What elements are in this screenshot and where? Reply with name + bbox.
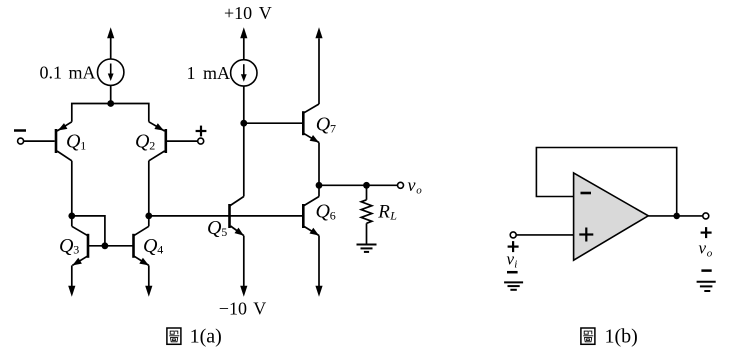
wire Q7 collector to +supply	[318, 38, 320, 104]
transistor Q5 (NPN)	[230, 197, 244, 236]
wire output rail	[319, 184, 398, 186]
terminal noninverting input	[198, 138, 204, 144]
ground at output	[697, 282, 716, 291]
wire op-amp output	[648, 215, 703, 217]
current source I1 circle	[98, 59, 124, 85]
terminal output (b)	[703, 213, 709, 219]
node I2/Q7 base junction	[240, 120, 247, 127]
svg-text:Q: Q	[135, 131, 150, 153]
svg-text:R: R	[377, 201, 390, 222]
wire Q4 collector to Q5/Q6 bases	[149, 215, 303, 217]
transistor Q7 (NPN)	[303, 104, 319, 143]
wire Q4 collector	[148, 216, 150, 226]
minus sign vo polarity	[701, 269, 711, 272]
resistor RL	[361, 185, 372, 244]
svg-text:L: L	[389, 209, 397, 223]
ground at input	[504, 282, 523, 289]
node output Q6/Q7	[316, 182, 323, 189]
wire I2 to Q5 collector	[243, 86, 245, 196]
terminal input (b)	[510, 232, 516, 238]
current source I2 1 mA supply arrow	[243, 38, 245, 60]
wire Q7 base	[244, 122, 303, 124]
svg-text:V: V	[259, 3, 272, 23]
wire Q6 emitter to negative rail	[318, 236, 320, 287]
svg-text:V: V	[253, 299, 266, 319]
wire Q4 emitter to negative rail	[148, 265, 150, 286]
svg-text:i: i	[514, 259, 517, 271]
svg-text:7: 7	[330, 121, 336, 135]
svg-text:4: 4	[157, 243, 163, 257]
svg-text:Q: Q	[59, 235, 74, 257]
svg-text:mA: mA	[203, 63, 230, 83]
minus sign vi polarity	[507, 271, 518, 274]
plus sign vo polarity	[701, 227, 712, 238]
svg-text:Q: Q	[143, 235, 158, 257]
wire Q2 base	[167, 140, 198, 142]
svg-text:1: 1	[80, 138, 86, 152]
svg-text:1: 1	[187, 63, 196, 83]
node feedback/output junction	[673, 213, 680, 220]
op-amp minus input mark	[581, 192, 592, 195]
terminal inverting input	[18, 138, 24, 144]
svg-text:Q: Q	[207, 217, 222, 239]
svg-text:−10: −10	[219, 299, 247, 319]
caption 圖 1(b) glyph	[581, 328, 595, 344]
terminal output vo	[398, 182, 404, 188]
plus sign vi polarity	[508, 241, 519, 252]
caption 圖 1(a) glyph	[167, 328, 181, 344]
wire Q1 collector	[71, 161, 73, 216]
wire Q7 emitter to output node	[318, 143, 320, 186]
wire feedback loop	[536, 148, 676, 216]
svg-text:6: 6	[330, 208, 336, 222]
svg-text:2: 2	[149, 138, 155, 152]
svg-text:v: v	[699, 238, 707, 257]
current source I2 circle	[231, 60, 257, 86]
transistor Q2 (PNP)	[149, 122, 166, 161]
svg-text:Q: Q	[316, 114, 331, 136]
op-amp U1	[574, 173, 649, 260]
minus sign input polarity	[14, 129, 26, 132]
svg-text:Q: Q	[66, 131, 81, 153]
svg-text:Q: Q	[316, 201, 331, 223]
op-amp plus input mark	[579, 228, 593, 242]
svg-text:v: v	[408, 175, 416, 195]
wire Q3 emitter to negative rail	[71, 265, 73, 286]
svg-text:3: 3	[73, 243, 79, 257]
svg-text:o: o	[416, 184, 422, 196]
wire Q2 collector	[148, 161, 150, 216]
wire emitter rail	[72, 104, 149, 122]
wire Q3 diode connection	[72, 216, 105, 246]
wire Q3-Q4 bases	[88, 245, 134, 247]
svg-text:mA: mA	[69, 63, 96, 83]
plus sign input polarity	[196, 126, 207, 137]
transistor Q3 (NPN)	[72, 226, 88, 265]
current source I1 arrow inside	[110, 64, 112, 76]
ground under RL	[357, 245, 377, 252]
transistor Q4 (NPN)	[134, 226, 149, 265]
svg-text:1(b): 1(b)	[605, 326, 638, 348]
transistor Q6 (NPN)	[303, 197, 319, 236]
wire Q3 collector	[71, 216, 73, 226]
node Q3 base junction	[102, 242, 109, 249]
wire Q5 emitter to negative supply	[243, 236, 245, 287]
svg-text:+10: +10	[224, 3, 252, 23]
wire Q6 collector to output node	[318, 185, 320, 196]
node Q2/Q4 collectors	[145, 213, 152, 220]
current source I2 arrow inside	[243, 64, 245, 76]
transistor Q1 (PNP)	[56, 122, 72, 161]
wire Q1 base	[24, 140, 55, 142]
node Q1/Q3 collectors	[68, 213, 75, 220]
svg-text:1(a): 1(a)	[190, 326, 222, 348]
wire I1 to emitter rail	[110, 85, 112, 103]
svg-text:5: 5	[221, 225, 227, 239]
svg-text:0.1: 0.1	[40, 63, 63, 83]
svg-text:o: o	[707, 248, 713, 260]
node junction rail	[107, 100, 114, 107]
node RL junction	[363, 182, 370, 189]
wire noninverting input	[516, 234, 573, 236]
current source I1 0.1 mA supply arrow	[110, 38, 112, 59]
